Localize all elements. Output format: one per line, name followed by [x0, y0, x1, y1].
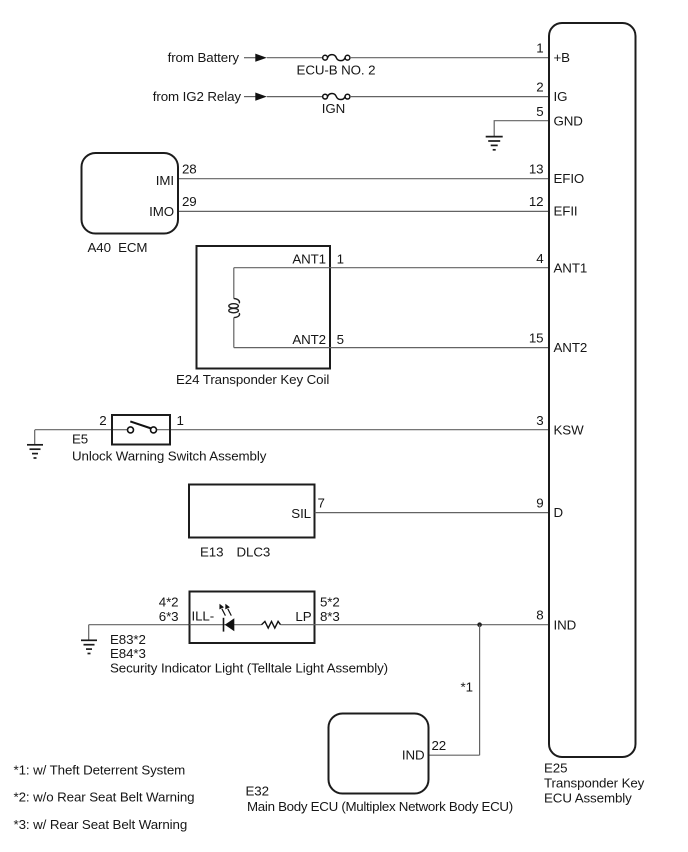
svg-text:Unlock Warning Switch Assembly: Unlock Warning Switch Assembly	[72, 449, 267, 464]
svg-text:E13: E13	[200, 545, 223, 560]
svg-text:1: 1	[536, 41, 543, 56]
svg-text:7: 7	[318, 496, 325, 511]
ground (E83/E84)	[81, 625, 97, 654]
svg-text:29: 29	[182, 194, 197, 209]
svg-text:Security Indicator Light (Tell: Security Indicator Light (Telltale Light…	[110, 661, 388, 676]
svg-text:IG: IG	[554, 89, 568, 104]
svg-text:IMI: IMI	[156, 173, 174, 188]
svg-text:E25: E25	[544, 761, 567, 776]
wire fuse to pin 2 IG	[350, 96, 549, 98]
wire IMO to EFII	[179, 210, 549, 212]
node from Battery	[168, 50, 267, 65]
svg-text:SIL: SIL	[291, 506, 311, 521]
fuse IGN	[322, 93, 350, 116]
svg-text:4: 4	[536, 251, 544, 266]
svg-text:12: 12	[529, 194, 544, 209]
wire coil vertical bottom	[233, 318, 235, 348]
svg-text:15: 15	[529, 331, 544, 346]
svg-text:13: 13	[529, 162, 544, 177]
wire GND pin 5	[494, 121, 548, 136]
telltale light assembly box	[190, 592, 315, 644]
svg-text:*1: w/ Theft Deterrent System: *1: w/ Theft Deterrent System	[14, 763, 186, 778]
transponder key ECU E25	[549, 23, 636, 757]
svg-text:+B: +B	[554, 50, 571, 65]
wire IG2 relay to fuse	[267, 96, 323, 98]
svg-text:2: 2	[99, 413, 106, 428]
wire IMI to EFIO	[179, 178, 549, 180]
svg-text:ANT2: ANT2	[292, 332, 326, 347]
wire ANT2 internal	[234, 347, 330, 349]
svg-text:ANT2: ANT2	[554, 340, 588, 355]
svg-text:IND: IND	[402, 748, 425, 763]
svg-text:8: 8	[536, 608, 543, 623]
wire ground to telltale	[89, 624, 189, 626]
wire ANT1 to ECU	[330, 267, 549, 269]
svg-text:E32: E32	[246, 784, 269, 799]
svg-text:D: D	[554, 505, 564, 520]
wire fuse to pin 1 +B	[350, 57, 549, 59]
wire SIL to D	[315, 512, 549, 514]
svg-text:KSW: KSW	[554, 422, 585, 437]
fuse ECU-B NO. 2	[297, 55, 376, 78]
node from IG2 Relay	[153, 89, 267, 104]
svg-text:IMO: IMO	[149, 204, 174, 219]
junction IND node	[477, 622, 482, 627]
label E13 DLC3	[200, 545, 270, 560]
svg-text:4*2: 4*2	[159, 595, 179, 610]
ground (GND pin 5)	[486, 137, 503, 150]
svg-text:A40 ECM: A40 ECM	[88, 240, 148, 255]
svg-text:from IG2 Relay: from IG2 Relay	[153, 89, 242, 104]
svg-text:Main Body ECU (Multiplex Netwo: Main Body ECU (Multiplex Network Body EC…	[247, 799, 513, 814]
svg-text:GND: GND	[554, 114, 583, 129]
wire through telltale	[190, 624, 262, 626]
svg-text:EFIO: EFIO	[554, 171, 585, 186]
svg-text:E24 Transponder Key Coil: E24 Transponder Key Coil	[176, 372, 329, 387]
svg-text:ECU-B NO. 2: ECU-B NO. 2	[297, 63, 376, 78]
wire switch to KSW	[112, 429, 127, 431]
wire ground to switch	[35, 429, 112, 431]
svg-text:2: 2	[536, 80, 543, 95]
ECM A40	[82, 153, 179, 234]
svg-text:5*2: 5*2	[320, 595, 340, 610]
svg-text:*3: w/ Rear Seat Belt Warning: *3: w/ Rear Seat Belt Warning	[14, 817, 188, 832]
svg-text:ANT1: ANT1	[554, 261, 588, 276]
wire E32 IND vertical	[479, 625, 481, 756]
svg-text:5: 5	[536, 104, 543, 119]
LED indicator lamp	[219, 604, 234, 632]
svg-text:*2: w/o Rear Seat Belt Warning: *2: w/o Rear Seat Belt Warning	[14, 790, 195, 805]
main body ECU E32	[329, 714, 429, 794]
transponder key coil E24	[197, 246, 331, 369]
wire ANT1 internal	[234, 267, 330, 269]
svg-text:E83*2: E83*2	[110, 632, 146, 647]
svg-text:IGN: IGN	[322, 101, 345, 116]
wire telltale to IND	[315, 624, 549, 626]
svg-text:IND: IND	[554, 618, 577, 633]
wire ANT2 to ECU	[330, 347, 549, 349]
svg-text:1: 1	[177, 413, 184, 428]
svg-text:from Battery: from Battery	[168, 50, 240, 65]
wire coil vertical top	[233, 268, 235, 299]
DLC3 E13	[189, 485, 315, 538]
svg-text:E84*3: E84*3	[110, 646, 146, 661]
svg-text:5: 5	[337, 332, 344, 347]
wire E32 IND horizontal	[429, 754, 480, 756]
coil L1	[229, 299, 240, 318]
svg-text:3: 3	[536, 413, 543, 428]
svg-text:ILL-: ILL-	[192, 609, 215, 624]
svg-text:28: 28	[182, 162, 197, 177]
svg-text:E5: E5	[72, 432, 88, 447]
svg-text:*1: *1	[461, 680, 473, 695]
svg-text:DLC3: DLC3	[237, 545, 271, 560]
svg-text:LP: LP	[295, 609, 311, 624]
svg-text:1: 1	[337, 252, 344, 267]
svg-text:Transponder Key: Transponder Key	[544, 776, 645, 791]
svg-text:9: 9	[536, 496, 543, 511]
svg-text:8*3: 8*3	[320, 609, 340, 624]
svg-text:ANT1: ANT1	[292, 252, 326, 267]
svg-text:ECU Assembly: ECU Assembly	[544, 791, 632, 806]
ground (E5)	[27, 430, 43, 458]
resistor (telltale)	[262, 621, 281, 628]
svg-text:EFII: EFII	[554, 204, 578, 219]
svg-text:6*3: 6*3	[159, 609, 179, 624]
wire resistor to box edge	[281, 624, 315, 626]
unlock warning switch E5	[112, 415, 170, 445]
svg-text:22: 22	[432, 738, 447, 753]
wire battery to fuse	[267, 57, 323, 59]
